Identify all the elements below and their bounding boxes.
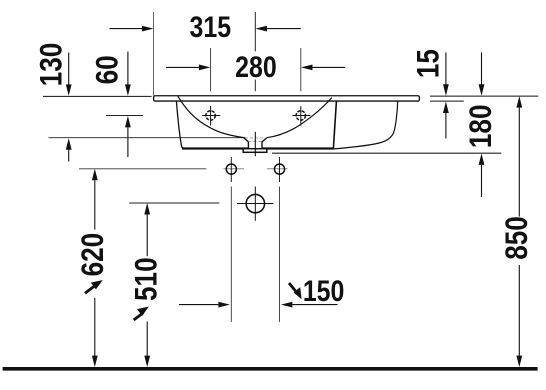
dimension 150 arrow right xyxy=(281,302,293,308)
extension line left faucet hole xyxy=(210,48,212,91)
extension line right faucet hole xyxy=(300,48,302,91)
dimension 15 lower arrow xyxy=(443,102,449,114)
dimension 180 upper stem xyxy=(481,52,483,84)
centerline drain upper segment xyxy=(254,12,256,51)
svg-text:180: 180 xyxy=(464,104,499,148)
dimension 510 lower stem xyxy=(146,322,148,357)
left faucet hole crosshair horizontal xyxy=(202,115,220,117)
dimension 150 line left xyxy=(179,304,218,306)
grey dash funnel top xyxy=(245,137,267,139)
dimension 315 line left xyxy=(110,28,143,30)
svg-text:315: 315 xyxy=(190,10,232,44)
dimension 15 upper arrow xyxy=(443,84,449,96)
dimension 180 upper arrow xyxy=(479,84,485,96)
centerline drain segment below 280 label xyxy=(254,80,256,92)
svg-text:130: 130 xyxy=(34,43,69,87)
floor line xyxy=(3,367,538,371)
extension line rim top right xyxy=(430,95,538,97)
svg-text:280: 280 xyxy=(235,50,277,84)
dimension 850 bottom arrow xyxy=(516,356,522,368)
left faucet hole crosshair vertical xyxy=(210,106,212,126)
dimension 60 lower stem xyxy=(127,127,129,157)
drain centerline xyxy=(254,132,256,156)
svg-text:850: 850 xyxy=(500,216,535,260)
dimension 150 line right xyxy=(292,304,337,306)
dimension 130 upper stem xyxy=(68,53,70,86)
extension line faucet hole level xyxy=(106,115,143,117)
drain flange xyxy=(243,149,267,153)
dimension 60 upper stem xyxy=(127,52,129,86)
dimension 130 upper arrow xyxy=(66,84,72,96)
dimension 620 bottom arrow xyxy=(92,356,98,368)
dimension 150 arrow left xyxy=(218,302,230,308)
bowl interior curve right xyxy=(267,98,332,138)
extension line left fixing hole vertical crosshair xyxy=(230,157,232,182)
dimension 620 leader arrow xyxy=(85,280,103,293)
dimension 620 top arrow xyxy=(92,169,98,181)
extension line left fixing hole down xyxy=(230,187,232,322)
drain funnel left side xyxy=(244,138,249,149)
dimension 130 lower arrow xyxy=(66,138,72,150)
dimension 315 arrow left xyxy=(142,26,154,32)
dimension 280 arrow left xyxy=(199,65,211,71)
extension line 130 level xyxy=(49,137,244,139)
extension line 180 level xyxy=(272,152,501,154)
svg-text:620: 620 xyxy=(76,233,111,277)
dimension 315 line right xyxy=(267,28,301,30)
outlet crosshair vertical xyxy=(254,187,256,221)
extension line right fixing hole down xyxy=(279,187,281,322)
extension line 620 level xyxy=(79,168,206,170)
dimension 15 lower stem xyxy=(445,113,447,139)
svg-text:15: 15 xyxy=(411,49,446,78)
basin bottom edge xyxy=(182,147,334,149)
right faucet hole dashed circle xyxy=(296,111,305,120)
basin inner wall line xyxy=(333,101,336,148)
dimension 620 lower stem xyxy=(94,298,96,356)
outlet crosshair horizontal xyxy=(237,203,274,205)
left fixing hole circle xyxy=(226,164,236,174)
drain funnel right side xyxy=(262,138,267,149)
bowl interior curve left xyxy=(178,96,246,138)
right fixing hole circle xyxy=(274,164,284,174)
grey dash funnel mid xyxy=(249,140,263,142)
dimension 850 top arrow xyxy=(516,96,522,108)
dimension 620 upper stem xyxy=(94,180,96,229)
dimension 510 upper stem xyxy=(146,215,148,257)
right faucet hole crosshair vertical xyxy=(300,106,302,126)
dimension 510 bottom arrow xyxy=(144,356,150,368)
dimension 60 upper arrow xyxy=(125,84,131,96)
dimension 130 lower stem xyxy=(68,150,70,162)
dimension 150 leader arrow xyxy=(289,283,302,299)
extension line right fixing hole vertical crosshair xyxy=(279,157,281,182)
right faucet hole crosshair horizontal xyxy=(292,115,310,117)
extension line 510 level xyxy=(129,202,219,204)
dimension 280 line right xyxy=(313,66,346,68)
extension line left edge vertical xyxy=(153,12,155,96)
dimension 850 lower stem xyxy=(518,265,520,356)
dimension 315 arrow right xyxy=(256,26,268,32)
grey tick through right fixing hole xyxy=(267,168,288,170)
dimension 280 line left xyxy=(166,66,199,68)
dimension 510 top arrow xyxy=(144,203,150,215)
drain funnel mask xyxy=(244,138,267,149)
left faucet hole dashed circle xyxy=(206,111,215,120)
svg-text:150: 150 xyxy=(303,274,345,308)
dimension 180 lower stem xyxy=(481,165,483,197)
dimension 850 upper stem xyxy=(518,108,520,217)
basin rim slab xyxy=(154,96,420,101)
extension line rim top left xyxy=(43,95,152,97)
basin right outer wall xyxy=(334,101,398,149)
dimension 180 lower arrow xyxy=(479,153,485,165)
dimension 60 lower arrow xyxy=(125,116,131,128)
extension line rim bottom right xyxy=(430,100,464,102)
svg-text:510: 510 xyxy=(129,257,164,301)
dimension 15 upper stem xyxy=(445,52,447,84)
outlet circle xyxy=(246,194,264,212)
dimension 280 arrow right xyxy=(301,65,313,71)
svg-text:60: 60 xyxy=(90,55,125,84)
basin left outer wall xyxy=(176,101,184,148)
grey tick through left fixing hole xyxy=(223,168,244,170)
dimension 510 leader arrow xyxy=(134,307,149,321)
